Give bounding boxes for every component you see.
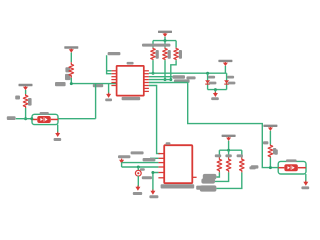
resistor R7 xyxy=(226,158,231,173)
net label wide (above resistors) xyxy=(142,44,170,47)
label X2 (above) xyxy=(286,159,297,162)
junction R5-bus xyxy=(169,78,172,81)
wire R1 bottom to U1 xyxy=(71,78,116,84)
net label pill 2 xyxy=(201,178,215,183)
resistor R9 xyxy=(268,145,273,158)
ground flag below LED xyxy=(135,186,140,191)
wire power stub to rail xyxy=(224,66,226,73)
label X2 side (vertical) xyxy=(274,149,277,154)
wire rail drop R3 xyxy=(152,41,154,48)
wire X2 to ground xyxy=(305,174,307,182)
diode D2 xyxy=(224,80,229,84)
label R2 value (right, vertical) xyxy=(28,98,32,106)
power flag (diode circuit) xyxy=(218,60,232,66)
U2 left pins xyxy=(158,154,164,178)
crystal X1 group xyxy=(32,114,58,124)
wire rail drop R4 xyxy=(164,41,166,48)
resistor R1 (top-left pullup) xyxy=(69,62,74,78)
crystal X2 group xyxy=(278,161,306,174)
resistor R3 (pullup1) xyxy=(151,48,156,61)
ground flag below X1 xyxy=(55,132,60,137)
net label B xyxy=(174,79,190,83)
wire U2 pin4 xyxy=(122,166,159,168)
label U2 designator xyxy=(166,142,171,145)
wire netlabel down to U1 pins xyxy=(107,55,112,73)
resistor R8 xyxy=(240,158,245,173)
wire net label to junction xyxy=(16,118,32,120)
wire power to rail2 xyxy=(228,141,230,150)
wire R3 bottom to bus xyxy=(152,60,154,73)
power flag (bottom middle) xyxy=(222,135,236,141)
junction diode left branch xyxy=(206,72,209,75)
label below X2 ground xyxy=(301,186,309,189)
net label A2 xyxy=(186,76,195,79)
junction LED branch xyxy=(137,166,140,169)
wire LED to ground xyxy=(137,176,139,187)
net label above-left of U1 xyxy=(108,52,121,55)
label below LED ground xyxy=(133,192,142,195)
rail2 xyxy=(219,149,241,151)
wire U1 pin to label B xyxy=(149,79,171,81)
wire R7 to net label xyxy=(215,172,229,181)
label below diode flag xyxy=(211,97,219,100)
wire junction to LED xyxy=(137,167,139,171)
label below U1 ground xyxy=(105,99,112,102)
ground flag below U2 pin5 xyxy=(150,190,155,195)
junction at X1 left xyxy=(30,117,33,120)
net label (far left) xyxy=(7,116,16,120)
wire U2 pin2 stub xyxy=(150,157,158,159)
wire U2 pin3 xyxy=(122,162,159,164)
wire diode left branch xyxy=(207,73,209,89)
label D2 name xyxy=(227,76,234,79)
junction R4-bus xyxy=(164,78,167,81)
wire R6 to net label xyxy=(216,172,219,177)
label R9 value (right, vertical) xyxy=(273,148,276,154)
wire rail2 drop R8 xyxy=(241,150,243,157)
wire U1 pin long to right circuit xyxy=(149,83,278,168)
U2 right pin xyxy=(192,176,196,178)
junction diode bottom xyxy=(214,88,217,91)
label below U2 pin5 ground xyxy=(149,195,158,198)
resistor R2 (left) xyxy=(23,94,28,108)
pullup rail xyxy=(153,40,176,42)
wire R4 bottom to bus xyxy=(164,60,166,79)
op IC U1 body xyxy=(117,66,144,96)
wire R2 bottom to crystal junction xyxy=(25,108,27,119)
ground flag below U1 xyxy=(106,93,111,98)
wire power to R2 top xyxy=(25,90,27,94)
label R8 name xyxy=(237,154,243,157)
label R7 name xyxy=(225,154,231,157)
power flag +3V3 (top left) xyxy=(64,46,78,52)
resistor R6 xyxy=(217,158,222,173)
label LED value xyxy=(142,176,152,179)
U1 left pins xyxy=(111,71,116,86)
wire diode right branch xyxy=(226,73,228,89)
label below X1 ground xyxy=(54,138,62,141)
label netflag line1 xyxy=(131,151,144,154)
wire U2 pin5 to ground xyxy=(153,173,159,191)
junction at R1 bottom xyxy=(70,82,73,85)
label D2 value xyxy=(228,82,235,85)
wire stub to vbat flag xyxy=(214,90,216,94)
wire U1 pin down to U2 pin1 xyxy=(149,86,160,154)
wire U1 pin to label A xyxy=(149,76,173,78)
label R5 value (vertical) xyxy=(179,50,182,59)
label D1 value xyxy=(209,82,216,85)
wire diode bottom rail xyxy=(208,89,227,91)
LED D3 xyxy=(135,170,141,176)
junction R3-bus xyxy=(152,72,155,75)
op IC U2 body xyxy=(164,145,192,183)
diode D1 xyxy=(205,80,210,84)
net flag below diodes xyxy=(213,92,218,97)
wire rail drop R5 xyxy=(175,41,177,48)
wire drop from U1 wire to crystal xyxy=(95,84,97,119)
junction crystal input xyxy=(24,117,27,120)
power flag (right) xyxy=(263,125,277,131)
label R1 name xyxy=(65,67,70,80)
wire rail2 drop R7 xyxy=(228,150,230,157)
label R3 value (vertical) xyxy=(156,50,159,59)
power flag (left mid) xyxy=(19,84,33,90)
label U2 pin2 net xyxy=(143,158,156,161)
wire power to R9 xyxy=(269,131,271,145)
wire X1 right to U1 branch xyxy=(58,118,96,120)
label U2 part number (below) xyxy=(161,184,207,190)
label U1 designator xyxy=(127,62,134,65)
wire R5 bottom jog to bus xyxy=(171,60,176,79)
resistor R5 (pullup3) xyxy=(174,48,179,61)
label R6 name xyxy=(215,154,221,157)
junction crystal2 input xyxy=(269,166,272,169)
resistor R4 (pullup2) xyxy=(163,48,168,61)
label R8 value (right) xyxy=(249,166,255,169)
net label pill 1 xyxy=(203,174,217,180)
wire power to R1 top xyxy=(70,53,72,63)
wire stub U1 to ground xyxy=(108,84,110,94)
wire R9 bottom to junction xyxy=(269,158,271,168)
wire U1 pin to diode rail xyxy=(149,72,227,74)
label X1 (above) xyxy=(40,112,49,115)
junction rail2 xyxy=(227,149,230,152)
power flag (top middle) xyxy=(158,31,172,37)
wire power to rail xyxy=(164,37,166,41)
label D1 name xyxy=(208,76,215,79)
ground flag below X2 xyxy=(303,181,308,186)
wire R8 to net label xyxy=(216,172,241,188)
label netflag line2 xyxy=(118,155,130,158)
net label on wire xyxy=(93,84,103,87)
label U1 part number (below) xyxy=(122,97,141,100)
U1 right pins xyxy=(144,71,149,92)
wire rail2 drop R6 xyxy=(218,150,220,157)
label R2 name xyxy=(15,96,20,100)
net flag +3V3 at U2 xyxy=(119,159,124,167)
label R4 value (vertical) xyxy=(168,50,171,59)
net label A xyxy=(172,75,185,79)
junction U2 pin5 xyxy=(151,171,154,174)
label at junction xyxy=(140,168,145,171)
wire X1 to ground xyxy=(57,125,59,133)
junction pullup rail xyxy=(164,39,167,42)
net label left of crystal2 xyxy=(251,165,259,168)
net label pill 3 xyxy=(200,185,217,191)
net label EN (left of junction) xyxy=(55,82,66,86)
label R9 name xyxy=(263,141,268,144)
